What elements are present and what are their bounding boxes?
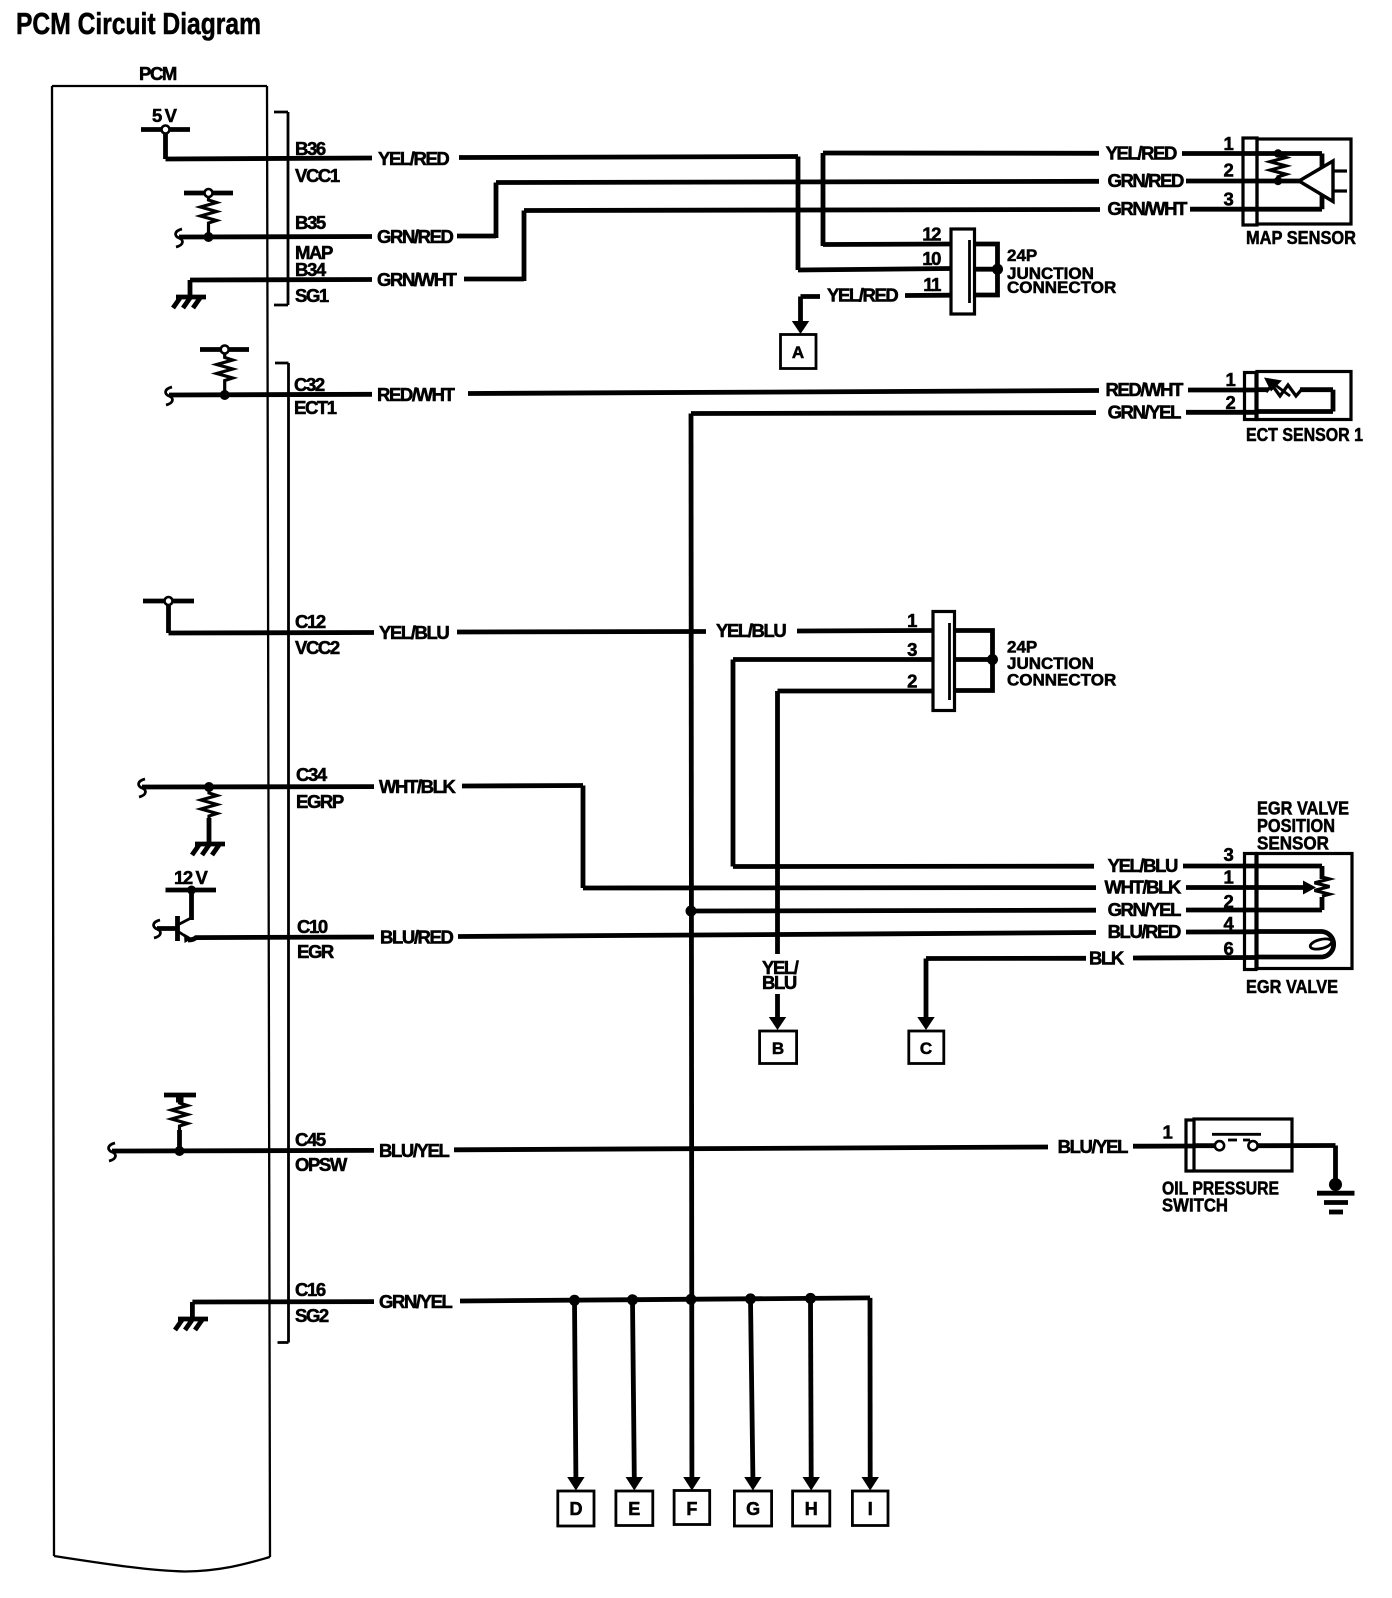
svg-text:YEL/BLU: YEL/BLU [716,620,786,641]
svg-text:WHT/BLK: WHT/BLK [1105,877,1183,898]
svg-text:B36: B36 [295,138,326,159]
svg-text:2: 2 [1226,392,1236,413]
svg-text:BLU/RED: BLU/RED [1108,921,1181,942]
svg-text:BLU/YEL: BLU/YEL [1058,1136,1128,1157]
svg-text:RED/WHT: RED/WHT [1105,379,1184,400]
svg-text:GRN/YEL: GRN/YEL [1108,899,1182,920]
svg-text:BLU: BLU [762,972,797,993]
svg-text:H: H [805,1499,818,1519]
svg-text:5 V: 5 V [152,105,178,126]
svg-text:6: 6 [1224,938,1234,959]
svg-text:B34: B34 [295,259,327,280]
svg-text:1: 1 [1163,1122,1173,1143]
svg-text:F: F [686,1499,697,1519]
svg-text:11: 11 [923,274,941,295]
svg-text:GRN/YEL: GRN/YEL [379,1291,453,1312]
svg-text:RED/WHT: RED/WHT [377,384,456,405]
svg-text:B: B [772,1039,784,1058]
svg-text:3: 3 [1224,188,1234,209]
svg-text:SWITCH: SWITCH [1162,1196,1228,1216]
svg-text:YEL/BLU: YEL/BLU [1108,855,1178,876]
svg-text:VCC2: VCC2 [295,637,340,658]
svg-text:PCM: PCM [139,63,177,84]
svg-text:GRN/RED: GRN/RED [377,226,454,247]
svg-text:2: 2 [1224,160,1234,181]
svg-text:2: 2 [1224,891,1234,912]
svg-text:SG1: SG1 [295,285,329,306]
svg-text:1: 1 [1224,867,1234,888]
svg-text:A: A [792,343,804,362]
svg-text:24P: 24P [1007,246,1037,265]
svg-text:1: 1 [907,610,917,631]
svg-text:D: D [570,1499,583,1519]
svg-text:C10: C10 [297,916,328,937]
svg-text:C16: C16 [295,1279,326,1300]
svg-text:SG2: SG2 [295,1305,329,1326]
svg-text:GRN/RED: GRN/RED [1107,170,1184,191]
svg-text:G: G [746,1499,760,1519]
svg-text:2: 2 [907,671,917,692]
svg-text:C45: C45 [295,1129,326,1150]
svg-text:EGR: EGR [297,941,334,962]
svg-text:WHT/BLK: WHT/BLK [379,776,457,797]
svg-text:I: I [868,1499,873,1519]
svg-text:1: 1 [1226,369,1236,390]
svg-text:YEL/BLU: YEL/BLU [379,622,449,643]
svg-text:BLK: BLK [1089,948,1125,969]
svg-text:CONNECTOR: CONNECTOR [1007,671,1116,690]
svg-text:EGRP: EGRP [296,791,344,812]
svg-text:1: 1 [1224,133,1234,154]
svg-text:12 V: 12 V [174,867,209,888]
svg-text:YEL/RED: YEL/RED [1106,143,1177,164]
svg-text:BLU/RED: BLU/RED [380,927,453,948]
svg-text:YEL/RED: YEL/RED [827,285,898,306]
svg-text:VCC1: VCC1 [295,165,340,186]
svg-text:ECT1: ECT1 [294,397,337,418]
svg-text:MAP SENSOR: MAP SENSOR [1246,228,1356,248]
svg-text:EGR VALVE: EGR VALVE [1246,977,1338,997]
svg-text:C32: C32 [294,374,325,395]
svg-text:GRN/WHT: GRN/WHT [1107,198,1188,219]
svg-text:GRN/YEL: GRN/YEL [1108,402,1182,423]
svg-text:OPSW: OPSW [295,1154,348,1175]
svg-text:YEL/RED: YEL/RED [378,148,449,169]
svg-text:BLU/YEL: BLU/YEL [379,1140,449,1161]
svg-text:B35: B35 [295,212,326,233]
svg-text:GRN/WHT: GRN/WHT [377,269,458,290]
svg-text:C12: C12 [295,611,326,632]
svg-text:C: C [920,1039,932,1058]
svg-text:3: 3 [907,639,917,660]
svg-text:C34: C34 [296,764,328,785]
svg-text:SENSOR: SENSOR [1257,834,1329,854]
svg-text:10: 10 [922,248,941,269]
svg-text:ECT SENSOR 1: ECT SENSOR 1 [1246,425,1363,445]
svg-text:CONNECTOR: CONNECTOR [1007,278,1116,297]
svg-text:PCM Circuit Diagram: PCM Circuit Diagram [16,6,261,41]
svg-text:3: 3 [1224,844,1234,865]
svg-text:E: E [628,1499,640,1519]
svg-text:12: 12 [922,224,941,245]
